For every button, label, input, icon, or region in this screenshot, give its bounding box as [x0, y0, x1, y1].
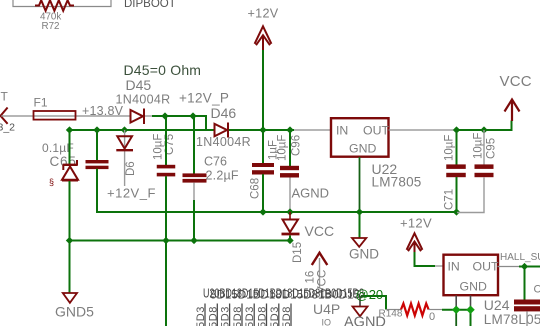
- wire C75 bottom to edge: [165, 176, 167, 326]
- fuse F1: [34, 111, 76, 120]
- junction D15 lower net: [286, 237, 293, 244]
- svg-text:VCC: VCC: [305, 223, 335, 239]
- voltage regulator U24 box: [444, 255, 499, 296]
- voltage regulator U22 box: [331, 118, 389, 157]
- wire zener to GND5: [69, 181, 71, 294]
- junction C71 bottom on bus: [453, 208, 460, 215]
- pin lead C95 top: [483, 130, 485, 165]
- pin lead U24 GND 1: [455, 296, 457, 309]
- wire C68 bottom lead: [262, 174, 264, 212]
- wire joining U24 ground pins: [442, 309, 471, 311]
- resistor R72: [35, 0, 74, 11]
- junction C68 top: [259, 126, 266, 133]
- wire C76 top lead: [193, 116, 195, 174]
- junction U24 gnd 1: [452, 306, 460, 314]
- svg-text:10µF: 10µF: [473, 133, 485, 159]
- wire down to output cap: [524, 267, 526, 301]
- svg-text:+12V_P: +12V_P: [179, 91, 229, 106]
- svg-text:C68: C68: [250, 178, 262, 199]
- wire +12V_P lower: [70, 129, 215, 131]
- svg-text:C96: C96: [291, 135, 303, 156]
- svg-text:5D8: 5D8: [257, 306, 269, 326]
- wire +12V stem down: [262, 50, 264, 130]
- wire C75 top lead: [165, 116, 167, 165]
- svg-text:F1: F1: [34, 96, 48, 110]
- wire to GND symbol: [359, 212, 361, 238]
- wire C71 top lead: [456, 130, 458, 165]
- svg-text:LM7805: LM7805: [372, 175, 422, 190]
- junction C65 top: [93, 126, 100, 133]
- capacitor C96: [280, 166, 299, 178]
- svg-text:AGND: AGND: [292, 186, 330, 201]
- junction C76 top net: [189, 112, 196, 119]
- svg-text:R72: R72: [42, 21, 60, 32]
- svg-text:10µF: 10µF: [153, 134, 165, 160]
- supply VCC arrow top right: [505, 100, 520, 122]
- junction C76 lower: [190, 237, 197, 244]
- stem to AGND symbol: [359, 296, 361, 307]
- junction C75 top net: [161, 112, 168, 119]
- pin lead C96 bottom: [289, 178, 291, 211]
- junction D6 top: [121, 126, 128, 133]
- svg-text:2.2µF: 2.2µF: [206, 169, 239, 183]
- wire node to zener: [69, 130, 71, 164]
- junction HALL net: [521, 263, 528, 270]
- wire OUT net to VCC: [455, 121, 512, 131]
- junction U24 gnd 2: [466, 306, 474, 314]
- ground AGND symbol bottom: [353, 307, 368, 317]
- junction C71 top: [453, 126, 460, 133]
- ground GND symbol: [352, 238, 366, 247]
- svg-text:1N4004R: 1N4004R: [116, 92, 171, 106]
- svg-text:D6: D6: [125, 161, 137, 176]
- svg-text:OUT: OUT: [473, 260, 499, 274]
- svg-text:8D15D1BD18D15D81B0D15: 8D15D1BD18D15D81B0D15: [210, 288, 360, 302]
- svg-text:VCC: VCC: [500, 73, 532, 90]
- svg-text:GND: GND: [460, 280, 487, 294]
- wire C71 bottom lead: [456, 177, 458, 212]
- pin lead D15 anode: [289, 212, 291, 219]
- svg-text:C9: C9: [534, 284, 540, 296]
- junction C75 lower: [162, 237, 169, 244]
- svg-text:+12V: +12V: [248, 6, 279, 20]
- svg-text:D15: D15: [292, 242, 304, 263]
- svg-text:3_2: 3_2: [0, 122, 15, 134]
- junction C96 top: [286, 126, 293, 133]
- pin lead U22 GND: [359, 157, 361, 212]
- pin lead cap bottom: [526, 311, 528, 326]
- off-page connector arrow: [1, 108, 8, 124]
- svg-text:@20: @20: [356, 287, 384, 302]
- capacitor C76: [183, 173, 207, 182]
- pin lead R148 right: [429, 309, 442, 311]
- svg-text:HALL_SUP: HALL_SUP: [500, 252, 540, 263]
- wire C65 bottom to AGND bus: [97, 169, 457, 212]
- pin lead U24 GND 2: [470, 296, 472, 309]
- pin lead VCC pin16: [319, 258, 321, 288]
- svg-text:5D8: 5D8: [232, 306, 244, 326]
- pin leads bottom row: [205, 304, 291, 326]
- resistor R148 highlighted: [401, 304, 429, 316]
- svg-text:T: T: [1, 90, 9, 104]
- wire C96 top lead: [289, 130, 291, 166]
- svg-text:D46: D46: [211, 105, 237, 121]
- svg-text:D45=0 Ohm: D45=0 Ohm: [124, 62, 202, 78]
- svg-text:GND5: GND5: [55, 304, 94, 320]
- wire D46 cathode: [229, 129, 294, 131]
- svg-text:OUT: OUT: [363, 124, 389, 138]
- svg-text:C71: C71: [444, 189, 456, 210]
- junction lower net left: [66, 237, 73, 244]
- svg-text:16: 16: [305, 271, 317, 284]
- svg-text:IN: IN: [448, 260, 460, 274]
- wire +12V to U24 IN: [415, 252, 436, 266]
- junction U22 GND on bus: [356, 208, 363, 215]
- supply VCC arrow middle: [312, 253, 328, 265]
- svg-text:0: 0: [429, 311, 435, 323]
- wire IO20 net: [361, 296, 386, 310]
- svg-text:§: §: [49, 177, 54, 187]
- svg-text:5D8: 5D8: [207, 306, 219, 326]
- junction zener top: [66, 126, 73, 133]
- capacitor C68: [252, 163, 274, 175]
- wire lower net horizontal: [70, 240, 291, 242]
- svg-text:10µF: 10µF: [444, 135, 456, 161]
- svg-text:U4P: U4P: [313, 301, 340, 317]
- capacitor bottom right (cut): [514, 300, 540, 312]
- svg-text:1N4004R: 1N4004R: [196, 135, 251, 149]
- wire C65 top lead: [96, 130, 98, 161]
- pin lead C95 bottom L: [457, 178, 484, 213]
- junction bus at C68: [259, 208, 266, 215]
- diode D46: [215, 123, 229, 138]
- pin lead U22 OUT: [389, 129, 456, 131]
- svg-text:LM78L05: LM78L05: [484, 312, 540, 326]
- wire D45 cathode to corner: [152, 116, 206, 130]
- svg-text:DIPBOOT: DIPBOOT: [124, 0, 176, 10]
- svg-text:10µF: 10µF: [277, 135, 289, 161]
- ground GND5 symbol: [63, 293, 77, 303]
- svg-text:+12V: +12V: [400, 216, 432, 231]
- pin lead R148 left: [386, 309, 401, 311]
- diode D6: [116, 130, 133, 186]
- svg-text:U24: U24: [484, 297, 510, 313]
- junction bus at D15: [286, 208, 293, 215]
- capacitor C71: [446, 164, 466, 177]
- capacitor C75: [157, 165, 176, 177]
- pin lead U24 OUT: [498, 266, 520, 268]
- diode D45: [131, 109, 153, 125]
- supply +12V arrow right: [407, 233, 423, 253]
- junction C95 top: [480, 126, 487, 133]
- box top-left partial outline: [13, 0, 111, 7]
- supply +12V arrow top: [255, 26, 272, 51]
- svg-text:GND: GND: [349, 142, 376, 156]
- svg-text:IO: IO: [322, 318, 332, 326]
- svg-text:IN: IN: [336, 124, 348, 138]
- diode D15: [282, 220, 300, 235]
- pin names bottom row: [195, 306, 293, 326]
- svg-text:+12V_F: +12V_F: [107, 186, 156, 201]
- wire U24 gnd down 1: [455, 310, 457, 326]
- wire C76 bottom: [193, 200, 195, 241]
- pin lead C76 bottom: [193, 183, 195, 200]
- wire connector to fuse: [1, 115, 34, 117]
- svg-text:C76: C76: [204, 155, 227, 169]
- svg-text:5D3: 5D3: [195, 306, 207, 326]
- svg-text:5D3: 5D3: [269, 306, 281, 326]
- pin lead U22 IN: [294, 129, 332, 131]
- wire C68 top lead: [262, 130, 264, 164]
- capacitor C95: [475, 164, 494, 177]
- svg-text:D45: D45: [126, 77, 152, 93]
- wire fuse to D45: [34, 115, 130, 117]
- wire D15 cathode: [289, 236, 291, 241]
- svg-text:5D8: 5D8: [281, 306, 293, 326]
- svg-text:AGND: AGND: [344, 314, 386, 326]
- svg-text:5D3: 5D3: [220, 306, 232, 326]
- wire HALL net right: [519, 266, 540, 268]
- svg-text:GND: GND: [349, 247, 379, 262]
- pin lead U24 IN: [435, 265, 444, 267]
- svg-text:5D3: 5D3: [244, 306, 256, 326]
- zener diode: [62, 160, 78, 180]
- svg-text:C95: C95: [486, 138, 498, 159]
- wire U24 gnd down 2: [470, 310, 472, 326]
- capacitor C65: [86, 160, 109, 169]
